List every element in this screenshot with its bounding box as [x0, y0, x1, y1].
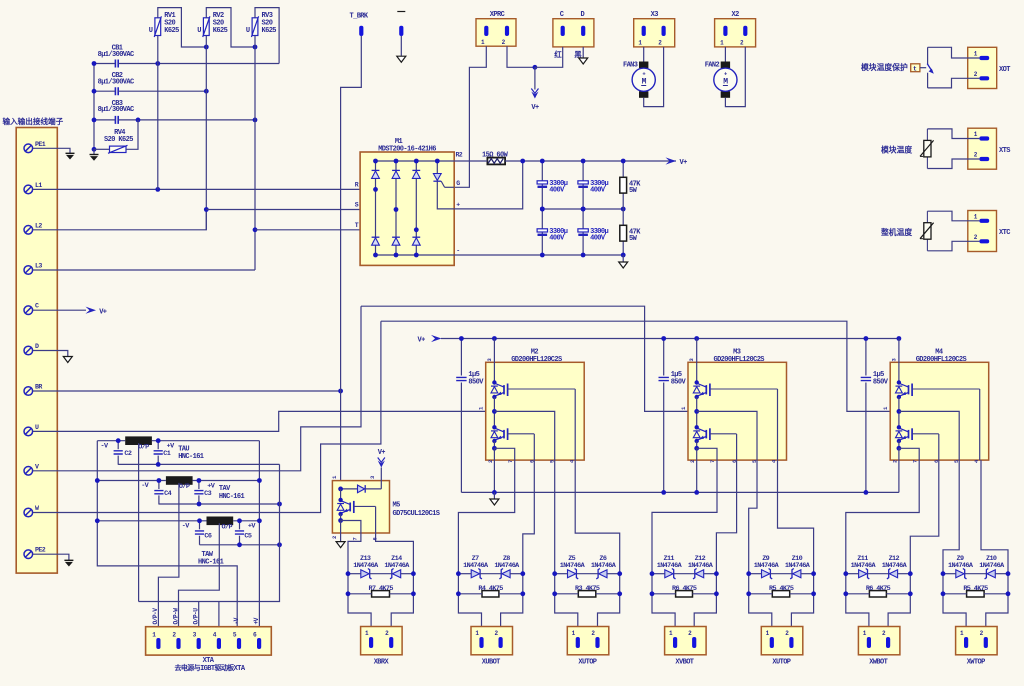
junction mid rail 3 [621, 207, 626, 212]
wire XTS top to pin1 [927, 129, 979, 139]
capacitor 3300u 400V Cbot1 [537, 209, 568, 255]
svg-text:1N4746A: 1N4746A [463, 562, 489, 570]
junction XBRX [411, 571, 416, 576]
svg-text:GD75CUL120C1S: GD75CUL120C1S [393, 510, 440, 518]
junction XUTOP [811, 591, 816, 596]
svg-text:1N4746A: 1N4746A [591, 562, 617, 570]
pin 6 XTA [253, 632, 261, 650]
wire BR terminal to brake node [33, 390, 341, 392]
wire PE2 to ground [33, 554, 69, 560]
IGBT module M4 GD200HFL120C2S [890, 348, 989, 460]
junction R2 out [520, 159, 525, 164]
svg-text:1N4746A: 1N4746A [754, 562, 780, 570]
junction V+ cap M3 [661, 336, 666, 341]
ground at D pad [579, 58, 588, 64]
rectifier module M1 MDST200-16-421H6 [360, 138, 454, 265]
junction XWTOP [941, 591, 946, 596]
wire T line to M1 [255, 229, 416, 231]
junction C3 common [197, 502, 202, 507]
IGBT module M2 GD200HFL120C2S [486, 348, 585, 460]
junction M1 phase T [414, 227, 419, 232]
junction cap Ctop2 top [581, 159, 586, 164]
junction V+ cap M4 [864, 336, 869, 341]
wire M5 gate pin6 to XBRX [376, 507, 414, 574]
junction S branch [204, 207, 209, 212]
capacitor 1u5 850V at M3 [659, 339, 687, 493]
svg-text:模块温度保护: 模块温度保护 [861, 62, 908, 72]
terminal PE2 [24, 547, 46, 559]
junction XUTOP [552, 591, 557, 596]
diode M1 bottom 3 [412, 236, 420, 238]
resistor R5 4K75 [769, 585, 794, 597]
junction XVBOT [650, 591, 655, 596]
svg-text:400V: 400V [549, 186, 565, 194]
svg-text:C5: C5 [244, 532, 251, 540]
junction XVBOT [650, 571, 655, 576]
junction M3 cap rail [661, 490, 666, 495]
wire zener line XVBOT [652, 573, 665, 575]
terminal BR [24, 384, 42, 396]
connector XTA [146, 627, 272, 673]
junction M2 emitter rail [492, 490, 497, 495]
wire M4 gate1 drop pin4 [979, 389, 981, 460]
junction -V TAW [95, 518, 100, 523]
pin 1 XOT [974, 51, 989, 61]
wire zener line XUTOP [555, 573, 568, 575]
svg-text:1N4746A: 1N4746A [851, 562, 877, 570]
wire M2 bus mid [493, 397, 495, 427]
junction M4 phase [897, 409, 902, 414]
wire XOT switch top to pin1 [928, 47, 980, 58]
junction M1 bus top 1 [373, 159, 378, 164]
junction XUTOP [617, 571, 622, 576]
wire resistor line XUTOP [555, 593, 579, 595]
wire M2 emitter [493, 441, 495, 448]
svg-text:O/P: O/P [138, 443, 149, 451]
pin 1 XTA [152, 632, 160, 650]
terminal D [24, 343, 39, 355]
ground M5 emitter [336, 542, 345, 548]
wire XPRC pin1 to M1 gate [454, 46, 486, 187]
wire M3 gate1 drop pin4 [777, 389, 779, 460]
svg-text:R4 4K75: R4 4K75 [478, 585, 503, 593]
wire supply row TAV [97, 480, 166, 482]
junction XBRX [411, 591, 416, 596]
power port V+ rail [418, 335, 442, 345]
junction M3 emitter rail [694, 490, 699, 495]
transistor M4 top IGBT [896, 380, 980, 399]
svg-text:8μ1/300VAC: 8μ1/300VAC [98, 79, 134, 87]
svg-text:400V: 400V [590, 234, 606, 242]
svg-text:1N4746A: 1N4746A [657, 562, 683, 570]
wire X3 pin2 to motor [644, 47, 664, 107]
junction XWBOT [843, 591, 848, 596]
wire left rail XUBOT [458, 574, 481, 638]
svg-text:XUBOT: XUBOT [482, 658, 500, 666]
wire CB1 line (L1 node) [94, 63, 115, 65]
capacitor 1u5 850V at M4 [861, 339, 889, 493]
wire RV1 top to L2 node [158, 8, 207, 47]
wire common to pin4 [218, 602, 220, 638]
zener Z13 1N4746A [353, 555, 379, 579]
wire right rail XUTOP [598, 574, 620, 638]
wire X3 pin1 to motor [643, 47, 645, 62]
svg-text:输入输出接线端子: 输入输出接线端子 [3, 116, 64, 126]
wire V- rail [461, 491, 899, 493]
transistor M2 bottom IGBT [491, 425, 534, 443]
wire M3 emitter [696, 441, 698, 448]
junction RV2-L3 [253, 45, 258, 50]
wire mid balance rail [542, 208, 623, 210]
motor FAN2 [705, 62, 737, 98]
junction CB3 left [92, 118, 97, 123]
wire M2 pin2 down [493, 448, 495, 492]
wire U terminal to M2 phase [33, 411, 495, 431]
wire M3 pin6 to XVBOT [716, 460, 736, 574]
wire M2 gate1 drop pin4 [574, 389, 576, 460]
junction XWTOP [941, 571, 946, 576]
junction V+ node [533, 65, 538, 70]
wire RV4 right to CB3 [126, 120, 138, 149]
junction mid rail 1 [540, 207, 545, 212]
wire XPRC pin2 to V+ node [507, 46, 535, 67]
svg-text:O/P-V: O/P-V [152, 608, 159, 625]
svg-text:1N4746A: 1N4746A [384, 562, 410, 570]
terminal C [24, 303, 39, 315]
wire S line to M1 [206, 209, 396, 211]
junction XBRX [346, 591, 351, 596]
zener Z9 1N4746A [754, 555, 780, 579]
svg-text:U: U [246, 27, 250, 35]
junction M2 emitter sense [492, 446, 497, 451]
junction chain TAW common [277, 542, 282, 547]
wire left rail XUTOP [555, 574, 578, 638]
wire V+ rail [441, 338, 899, 340]
wire XTC top to pin1 [927, 211, 979, 221]
resistor 47K 5W bottom [620, 209, 641, 255]
junction V+ pin3 M4 [897, 336, 902, 341]
svg-text:-: - [456, 248, 459, 255]
wire M1 column 2 [395, 161, 397, 255]
svg-text:GD200HFL120C2S: GD200HFL120C2S [713, 356, 764, 364]
svg-text:1N4746A: 1N4746A [688, 562, 714, 570]
svg-text:X2: X2 [731, 11, 739, 19]
wire M4 phase drop pin5 [899, 411, 959, 460]
wire RV3 top to L1 node [255, 8, 279, 64]
current sensor TAU HNC-161 [125, 436, 204, 461]
junction cap+ top TAV [197, 478, 202, 483]
pin 2 XVBOT [688, 630, 696, 648]
wire zener line XUTOP [749, 573, 762, 575]
wire left rail XWBOT [846, 574, 869, 638]
wire M3 pin7 to XVBOT [652, 460, 717, 574]
junction XUBOT [456, 591, 461, 596]
wire M3 pin2 down [696, 448, 698, 492]
zener Z11 1N4746A [657, 555, 683, 579]
svg-text:7: 7 [709, 460, 716, 463]
IGBT module M3 GD200HFL120C2S [688, 348, 787, 460]
connector XTC [968, 211, 1010, 252]
wire M1 SCR to + pin [437, 181, 454, 209]
resistor R6 4K75 [672, 585, 697, 597]
wire M1 column 3 [415, 161, 417, 255]
svg-text:850V: 850V [468, 379, 484, 387]
svg-text:XTC: XTC [999, 229, 1010, 237]
wire M2 pin4 to XUTOP [575, 460, 620, 574]
capacitor C plus TAV [194, 481, 203, 505]
pin 2 XOT [974, 71, 989, 81]
resistor R3 4K75 [575, 585, 600, 597]
pin 1 XTS [974, 131, 989, 141]
junction C6 top [197, 518, 202, 523]
current sensor TAW HNC-161 [198, 517, 233, 567]
junction -V TAV [95, 478, 100, 483]
resistor R2 15Ω 60W [456, 151, 509, 164]
wire M5 collector bus [340, 489, 342, 500]
zener Z14 1N4746A [384, 555, 410, 579]
junction 47K bottom [621, 253, 626, 258]
power port V+ below XPRC [531, 67, 539, 112]
pin 1 XTC [974, 213, 989, 223]
svg-text:R7 4K75: R7 4K75 [369, 585, 394, 593]
wire left rail XBRX [348, 574, 371, 638]
junction cap Cbot1 top [540, 207, 545, 212]
junction C5 top [237, 518, 242, 523]
capacitor 3300u 400V Cbot2 [578, 209, 609, 255]
pin 5 XTA [233, 632, 241, 650]
ground at DC bus [619, 255, 628, 268]
terminal PE1 [24, 141, 46, 153]
diode M1 top 3 [412, 169, 420, 171]
junction XUBOT [520, 591, 525, 596]
varistor RV3 [246, 12, 276, 37]
varistor RV2 [197, 12, 227, 37]
varistor RV1 [149, 12, 179, 37]
pin 1 X2 [720, 26, 727, 47]
svg-text:850V: 850V [873, 379, 889, 387]
junction cap+ top TAU [156, 438, 161, 443]
connector XVBOT [665, 627, 707, 667]
svg-text:6: 6 [372, 538, 379, 541]
wire M5 pin2 to ground [340, 521, 342, 542]
junction XVBOT [714, 591, 719, 596]
svg-text:400V: 400V [590, 186, 606, 194]
wire zener line XUBOT [458, 573, 471, 575]
zener Z10 1N4746A [785, 555, 811, 579]
junction M4 cap rail [864, 490, 869, 495]
wire M1 column 1 [375, 161, 377, 255]
svg-text:V+: V+ [531, 104, 539, 112]
wire -V chain [97, 441, 237, 638]
wire supply row TAW [97, 520, 206, 522]
capacitor C minus TAU [114, 441, 123, 465]
svg-text:MDST200-16-421H6: MDST200-16-421H6 [378, 145, 436, 153]
junction V+ cap M2 [459, 336, 464, 341]
svg-text:去电源与IGBT驱动板XTA: 去电源与IGBT驱动板XTA [174, 663, 245, 673]
svg-text:R2: R2 [456, 151, 463, 158]
svg-text:XTA: XTA [203, 657, 215, 665]
svg-text:K625: K625 [164, 27, 179, 35]
wire M2 phase drop pin5 [494, 411, 554, 460]
pin 2 X2 [740, 26, 747, 47]
svg-text:8μ1/300VAC: 8μ1/300VAC [98, 51, 134, 59]
svg-text:1N4746A: 1N4746A [979, 562, 1005, 570]
svg-text:GD200HFL120C2S: GD200HFL120C2S [916, 356, 967, 364]
junction M5 sense [338, 518, 343, 523]
junction M3 emitter sense [694, 446, 699, 451]
wire right rail XUTOP [791, 574, 813, 638]
wire M3 pin5 to XVTOP [749, 460, 757, 574]
pin 2 XUTOP [785, 630, 793, 648]
svg-text:O/P: O/P [222, 523, 233, 531]
svg-text:BR: BR [35, 384, 42, 391]
wire M3 sense drop pin7 [697, 448, 717, 460]
wire T_BRK down to M5 collector [341, 36, 362, 489]
junction XUTOP [552, 571, 557, 576]
junction XWTOP [1006, 571, 1011, 576]
junction CB1-RV1 [155, 61, 160, 66]
svg-text:PE2: PE2 [35, 547, 46, 554]
zener Z9 1N4746A [948, 555, 974, 579]
capacitor 3300u 400V Ctop1 [537, 161, 568, 209]
svg-text:D: D [580, 11, 584, 19]
wire TAU common [118, 463, 279, 465]
svg-text:2: 2 [891, 460, 898, 463]
svg-text:R3 4K75: R3 4K75 [575, 585, 600, 593]
wire L1 to M1 pin R [33, 188, 376, 190]
wire M4 pin5 to XWTOP [943, 460, 959, 574]
junction M5 collector [338, 487, 343, 492]
svg-text:整机温度: 整机温度 [881, 227, 912, 237]
wire M1 anode bus [376, 254, 455, 256]
junction RV1-L2 [204, 45, 209, 50]
wire M1 + to bus riser [454, 161, 523, 209]
pin 1 XPRC [481, 26, 488, 46]
junction M1 bus bottom 1 [373, 253, 378, 258]
test point T_BRK [350, 13, 369, 37]
svg-text:-V: -V [233, 617, 240, 624]
wire M2 collector bus [493, 339, 495, 383]
wire zener line XBRX [348, 573, 361, 575]
wire right rail XUBOT [501, 574, 523, 638]
junction RV4 left [92, 147, 97, 152]
wire M2 pin6 to XUBOT [523, 460, 535, 574]
wire W terminal jog [33, 321, 381, 512]
wire TAW O/P to pin2 [179, 523, 220, 637]
svg-text:V+: V+ [680, 159, 688, 167]
svg-text:7: 7 [507, 460, 514, 463]
svg-text:PE1: PE1 [35, 141, 46, 148]
pin 1 X3 [638, 26, 645, 47]
pin 1 XUTOP [766, 630, 774, 648]
junction cap bottom [581, 253, 586, 258]
wire CB common to RV4 [93, 64, 95, 150]
junction mid rail 2 [581, 207, 586, 212]
wire C pad to V+ node [535, 47, 563, 67]
pin 2 XTS [974, 152, 989, 162]
wire left rail XVBOT [652, 574, 675, 638]
wire D pad to ground [582, 47, 584, 58]
transistor M2 top IGBT [491, 380, 575, 399]
svg-text:O/P-W: O/P-W [172, 608, 179, 625]
svg-text:C: C [560, 11, 564, 19]
connector XOT [968, 47, 1011, 88]
junction CB1 left [92, 61, 97, 66]
junction cap- top TAU [116, 438, 121, 443]
resistor R4 4K75 [478, 585, 503, 597]
wire R2 to V+ rail [505, 160, 676, 162]
wire RV2 line down [205, 36, 207, 230]
svg-text:L3: L3 [35, 263, 42, 270]
junction XWBOT [908, 571, 913, 576]
brake module M5 GD75CUL120C1S [332, 481, 439, 533]
pin 2 X3 [658, 26, 665, 47]
svg-text:T_BRK: T_BRK [350, 13, 369, 21]
svg-text:C6: C6 [204, 532, 211, 540]
svg-text:400V: 400V [549, 234, 565, 242]
wire resistor line XBRX [348, 593, 372, 595]
junction M1 bus bottom 2 [394, 253, 399, 258]
wire left rail XUTOP [749, 574, 772, 638]
capacitor CB3 [98, 100, 134, 124]
diode M1 bottom 1 [372, 236, 380, 238]
svg-text:S20 K625: S20 K625 [104, 136, 133, 144]
svg-text:模块温度: 模块温度 [881, 145, 912, 155]
power port V+ main [666, 157, 688, 167]
wire M3 collector bus [696, 339, 698, 383]
zener Z11 1N4746A [851, 555, 877, 579]
wire M1 bus to R2 [454, 160, 487, 162]
pin 3 XTA [193, 632, 201, 650]
zener Z8 1N4746A [494, 555, 520, 579]
resistor R6 4K75 [866, 585, 891, 597]
wire common chain down [139, 464, 280, 601]
svg-text:7: 7 [352, 538, 359, 541]
svg-text:C3: C3 [204, 490, 211, 498]
svg-text:V+: V+ [99, 308, 107, 316]
wire RV3 line down [254, 36, 256, 271]
wire resistor line XUTOP [749, 593, 773, 595]
transistor M4 bottom IGBT [896, 425, 939, 443]
junction +V TAW [257, 518, 262, 523]
connector XPRC [476, 11, 516, 46]
wire M4 emitter [898, 441, 900, 448]
pin 2 XPRC [502, 26, 509, 46]
wire TAW common [200, 544, 280, 546]
wire TAV common [159, 503, 280, 505]
wire M4 bus mid [898, 397, 900, 427]
svg-text:XVBOT: XVBOT [675, 658, 693, 666]
thermistor at XTC [920, 211, 934, 251]
svg-text:O/P: O/P [179, 483, 190, 491]
wire zener line XWBOT [846, 573, 859, 575]
wire right rail XBRX [391, 574, 413, 638]
svg-text:850V: 850V [671, 379, 687, 387]
junction +V TAV [257, 478, 262, 483]
pin 2 XWTOP [980, 630, 988, 648]
wire M3 gate2 drop pin6 [736, 434, 738, 460]
junction T branch [253, 227, 258, 232]
wire M5 sense pin7 to XBRX [341, 521, 361, 574]
junction CB3-RV4 [136, 118, 141, 123]
svg-text:R5 4K75: R5 4K75 [963, 585, 988, 593]
wire M3 pin4 to XVTOP [778, 460, 814, 574]
wire bottom bus to ground [454, 254, 623, 256]
junction cap Cbot2 top [581, 207, 586, 212]
svg-text:XUTOP: XUTOP [772, 658, 790, 666]
pin 1 XWTOP [960, 630, 968, 648]
varistor RV4 [104, 129, 133, 153]
